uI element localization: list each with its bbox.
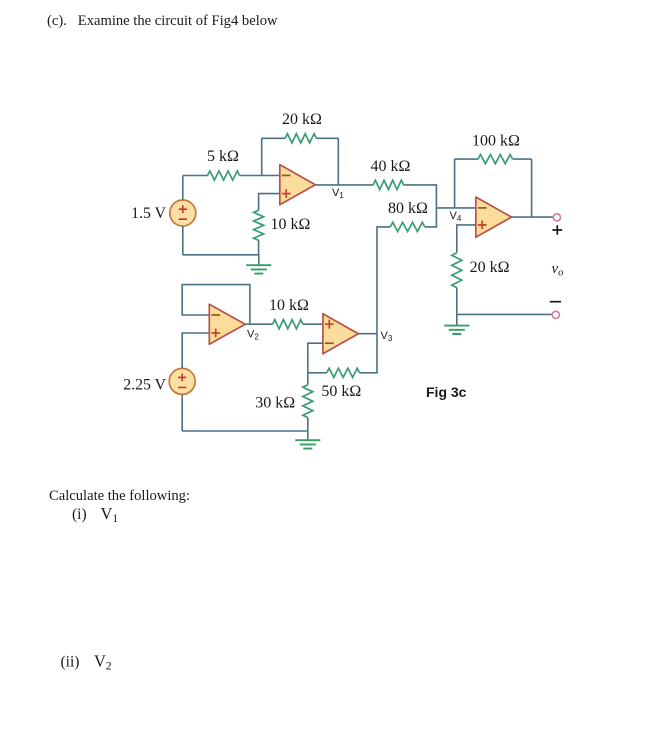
- ground GND2: [295, 431, 320, 449]
- wire 5k to op-amp U1 inverting input: [240, 175, 280, 177]
- wire VS2 bottom to ground node: [182, 430, 308, 432]
- wire V3 vertical up to 80k: [377, 227, 390, 334]
- wire 80k to V4 node corner: [425, 208, 437, 227]
- wire U3 output to V3 node: [358, 333, 377, 335]
- wire 30k top stub: [307, 373, 309, 385]
- svg-text:50 kΩ: 50 kΩ: [321, 383, 361, 400]
- wire 30k bottom: [307, 418, 309, 431]
- svg-text:80 kΩ: 80 kΩ: [388, 200, 428, 217]
- svg-text:(c). Examine the circuit of: (c). Examine the circuit of Fig4 below: [47, 13, 278, 29]
- resistor R3 10k to ground: [254, 210, 264, 240]
- svg-text:V1: V1: [101, 504, 119, 525]
- svg-text:V3: V3: [381, 330, 393, 343]
- svg-text:(i): (i): [72, 506, 87, 523]
- resistor R2 20k feedback: [285, 134, 316, 143]
- resistor R7 20k to ground: [452, 253, 462, 288]
- wire 20k bottom: [456, 288, 458, 315]
- svg-text:10 kΩ: 10 kΩ: [271, 216, 311, 233]
- svg-text:V1: V1: [332, 187, 344, 200]
- wire VS1 bottom to ground node: [183, 254, 259, 256]
- wire V4 node up to 100k feedback: [454, 159, 456, 208]
- wire U2 output to 10k: [245, 323, 272, 325]
- wire V4 node to U4 inverting input: [436, 207, 475, 209]
- wire feedback left vertical U1: [261, 138, 263, 175]
- svg-text:V2: V2: [247, 329, 259, 342]
- svg-text:10 kΩ: 10 kΩ: [269, 297, 309, 314]
- wire U1 noninverting input: [259, 194, 280, 211]
- wire feedback top left segment U4: [455, 158, 478, 160]
- svg-text:100 kΩ: 100 kΩ: [472, 133, 520, 150]
- resistor R1 5k: [208, 171, 240, 180]
- terminal minus output: [552, 311, 559, 318]
- resistor R10 30k to ground: [303, 385, 313, 418]
- resistor R9 50k feedback: [327, 368, 360, 377]
- wire U1 output to 40k: [315, 184, 373, 186]
- voltage source VS2 2.25V: [169, 368, 195, 394]
- wire U2 feedback loop: [182, 285, 250, 325]
- wire source VS1 top stem: [182, 176, 184, 201]
- resistor R6 80k: [390, 222, 425, 231]
- resistor R4 40k: [373, 180, 403, 189]
- svg-text:20 kΩ: 20 kΩ: [470, 259, 510, 276]
- svg-text:Calculate the following:: Calculate the following:: [49, 488, 190, 504]
- svg-text:20 kΩ: 20 kΩ: [282, 111, 322, 128]
- wire feedback right vertical U4 to output: [531, 159, 533, 217]
- wire 40k to V4 node corner: [404, 185, 437, 208]
- svg-text:1.5 V: 1.5 V: [131, 205, 166, 222]
- svg-text:Fig 3c: Fig 3c: [426, 384, 467, 400]
- terminal plus output: [553, 214, 560, 221]
- wire bottom to minus terminal: [457, 313, 552, 315]
- label plus sign: [552, 225, 562, 235]
- op-amp U2: [209, 304, 245, 344]
- op-amp U1: [280, 165, 316, 205]
- svg-text:vo: vo: [552, 261, 564, 279]
- resistor R5 100k feedback: [478, 155, 513, 164]
- ground GND3: [444, 314, 469, 334]
- voltage source VS1 1.5V: [170, 200, 196, 226]
- wire feedback top right segment U4: [513, 158, 532, 160]
- wire VS2 bottom stem: [181, 394, 183, 431]
- svg-text:5 kΩ: 5 kΩ: [207, 148, 239, 165]
- svg-text:(ii): (ii): [61, 654, 80, 671]
- svg-text:V4: V4: [450, 210, 462, 223]
- wire feedback top right segment U1: [316, 137, 338, 139]
- wire VS2 top stem to U2 noninverting input: [182, 333, 209, 368]
- wire 50k feedback left segment: [308, 372, 327, 374]
- wire 10k bottom: [258, 240, 260, 255]
- wire 10k to U3 noninverting input: [303, 323, 323, 325]
- wire U3 inverting input: [308, 343, 323, 373]
- ground GND1: [246, 255, 271, 274]
- svg-text:40 kΩ: 40 kΩ: [371, 158, 411, 175]
- wire U4 noninverting input: [457, 225, 476, 253]
- wire feedback right vertical U1 to output: [337, 138, 339, 185]
- wire VS1 bottom stem: [182, 226, 184, 255]
- op-amp U3: [323, 314, 358, 354]
- wire VS1 to 5k resistor: [183, 175, 208, 177]
- svg-text:V2: V2: [94, 652, 112, 673]
- wire feedback top left segment U1: [262, 137, 286, 139]
- resistor R8 10k series: [273, 320, 303, 329]
- wire U4 output to plus terminal: [512, 216, 554, 218]
- op-amp U4: [476, 197, 512, 237]
- wire 50k feedback right segment up to V3: [360, 334, 377, 373]
- label minus sign: [550, 301, 561, 303]
- svg-text:30 kΩ: 30 kΩ: [255, 395, 295, 412]
- svg-text:2.25 V: 2.25 V: [123, 377, 166, 394]
